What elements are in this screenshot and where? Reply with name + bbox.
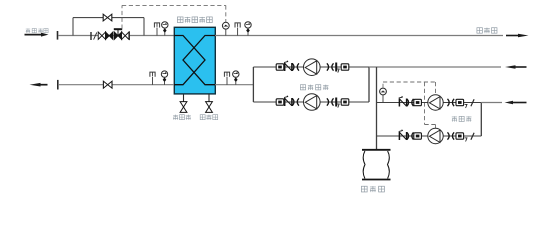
heat exchanger HX body	[174, 27, 215, 94]
flex joint mu-top	[407, 99, 414, 106]
flange sq bottom out	[341, 99, 349, 105]
flex joint top out	[327, 63, 334, 70]
branch top components	[276, 59, 349, 76]
check valve mu-bot	[399, 130, 407, 140]
wire: makeup right manifold	[480, 103, 482, 137]
drain valve left	[180, 102, 187, 113]
heat exchanger internal path B	[183, 36, 215, 85]
label 板式换热器	[177, 17, 212, 23]
wire: makeup branch bottom pipe	[377, 135, 482, 137]
flange tick	[57, 31, 59, 40]
tail 7 top	[465, 104, 467, 108]
label 一次侧 (primary side, top-left)	[26, 28, 48, 32]
thermometer T4	[224, 72, 229, 85]
tail 7 bottom	[465, 138, 467, 142]
wire: top supply pipe left	[58, 35, 174, 37]
heat exchanger internal path A	[174, 36, 205, 85]
check valve mu-top	[399, 96, 407, 106]
wire: pump branch top pipe	[253, 66, 369, 68]
wire: bypass top pipe	[73, 17, 144, 19]
gauge P3	[161, 71, 167, 85]
valve V3 control valve (filled) with actuator	[114, 28, 122, 39]
wire: return pipe to right edge	[369, 66, 501, 68]
label 二次侧 (secondary side, top-right)	[477, 28, 497, 34]
valve return gate	[103, 81, 112, 88]
flange sq mu-bot	[414, 133, 422, 139]
label 补水泵	[452, 116, 472, 121]
gauge P2	[245, 22, 251, 36]
valve V2 (shut-off, filled)	[106, 32, 113, 39]
flange sq mu-bot out	[456, 133, 464, 139]
thermometer T2	[235, 23, 240, 36]
flow arrow right (primary in)	[25, 33, 49, 37]
valve V1 (gate, open)	[98, 32, 105, 39]
drain stub left	[183, 94, 185, 101]
flex joint bottom	[292, 98, 299, 105]
flex joint top	[292, 63, 299, 70]
label 循环水泵	[300, 85, 328, 90]
flange tick 2	[91, 32, 97, 40]
flex joint bottom out	[327, 98, 334, 105]
wire: return pipe left	[58, 84, 174, 86]
flange sq mu-top	[414, 99, 422, 105]
tank body	[362, 150, 391, 180]
flow arrow left (primary return out)	[30, 83, 48, 87]
wire: bypass right riser	[143, 18, 145, 36]
wire: tank riser vertical	[376, 67, 378, 150]
label 排污口 right	[200, 115, 218, 120]
pump PU1	[304, 59, 321, 76]
wire: top pipe right of HX	[215, 35, 503, 37]
wire: left manifold	[252, 67, 254, 102]
flange tick 3	[128, 31, 130, 40]
flange sq top out	[341, 64, 349, 70]
check valve top	[284, 61, 292, 71]
pump MU1	[428, 95, 443, 110]
flow arrow left (secondary return in)	[505, 65, 527, 68]
makeup bottom components	[399, 128, 474, 143]
label 定压罐	[361, 186, 384, 192]
drain valve right	[206, 102, 213, 113]
flow arrow right (secondary supply out)	[506, 34, 529, 38]
check valve bottom	[284, 96, 292, 106]
flange sq top	[276, 64, 284, 70]
thermometer T1	[154, 23, 159, 36]
wire: makeup branch top pipe	[377, 102, 482, 104]
flex joint mu-top out	[448, 99, 455, 106]
gauge P1	[162, 22, 168, 36]
flange sq bottom	[276, 99, 284, 105]
wire: bypass left riser	[72, 18, 74, 36]
makeup top components	[399, 95, 474, 110]
butterfly bar top	[335, 63, 339, 73]
pump PU2	[304, 94, 321, 111]
wire: makeup inlet pipe	[481, 102, 502, 104]
control signal dashed lines (makeup)	[383, 82, 436, 128]
thermometer T3	[150, 72, 155, 85]
temperature sensor TE with stem	[222, 22, 229, 35]
pump MU2	[428, 128, 443, 143]
flange sq mu-top out	[456, 99, 464, 105]
flow arrow left (tap water in)	[505, 101, 527, 104]
gauge P4	[233, 71, 239, 85]
flex joint mu-bot	[407, 132, 414, 139]
valve bypass gate	[103, 14, 112, 21]
flange tick	[57, 80, 59, 90]
wire: pump branch bottom pipe	[253, 101, 369, 103]
branch bottom components	[276, 94, 349, 111]
label 排污口 left	[173, 115, 191, 120]
control signal dashed lines (top box)	[122, 5, 226, 28]
butterfly bar bottom	[335, 98, 339, 108]
flex joint mu-bot out	[448, 132, 455, 139]
flange tick makeup bottom	[471, 133, 474, 140]
flange tick makeup top	[471, 99, 474, 106]
wire: right manifold	[368, 67, 370, 102]
pressure sensor PS	[380, 88, 387, 102]
drain stub right	[208, 94, 210, 101]
wire: pipe HX to manifold	[215, 84, 253, 86]
valve V4 (gate, open)	[122, 32, 129, 39]
